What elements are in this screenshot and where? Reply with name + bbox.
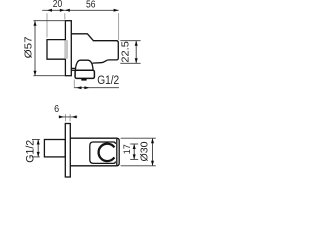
G1/2 nipple extension ticks [32,139,40,141]
neck line escutcheon to outlet [71,69,75,71]
arrow Ø57 top [34,21,37,26]
dim line 22.5 [135,41,137,64]
dim Ø57 top extension tick [33,20,64,22]
holder slot (stadium) [90,142,116,163]
arrow 22.5 bottom [135,58,138,63]
svg-text:Ø57: Ø57 [23,36,35,58]
outlet body (side view) [75,70,94,78]
dim line Ø57 [34,21,36,76]
dim line Ø30 [152,138,154,166]
arrow 20 right [60,9,65,12]
wall nipple G1/2 (side view) [47,40,65,60]
dim line 56 [65,9,119,11]
dim Ø57 bottom extension tick [33,75,64,77]
holder body profile (side view) [71,34,118,63]
arrow 17 bottom [133,154,136,159]
G1/2 nipple arrow top [37,140,40,145]
G1/2 arrow left [76,86,81,89]
arrow 20 left [47,9,52,12]
outlet thread nub [81,78,86,80]
svg-text:56: 56 [86,0,96,10]
thread shading band [65,40,68,59]
dim Ø30 extension ticks [121,137,156,139]
svg-text:G1/2: G1/2 [24,140,36,163]
svg-text:22.5: 22.5 [120,41,132,63]
dim line 20 [42,9,65,11]
dim 20/56 shared extension line [64,13,66,19]
svg-text:20: 20 [53,0,63,10]
G1/2 nipple arrow bottom [37,152,40,157]
dim 20 extension line left [46,13,48,37]
dim 22.5 top extension tick [120,40,140,42]
arrow Ø57 bottom [34,71,37,76]
svg-text:6: 6 [54,104,59,115]
arrow Ø30 top [151,138,154,143]
wall nipple (bottom view) [44,140,65,157]
G1/2 outlet extension line [73,80,75,89]
dim 22.5 bottom extension tick [120,62,140,64]
arrow 6 left [59,115,64,118]
arrow 56 right [114,9,119,12]
cup ring (thick C, opening right) [99,144,115,161]
G1/2 outlet dim line [74,87,119,89]
escutcheon (bottom view, edge-on) [65,124,70,178]
svg-text:Ø30: Ø30 [139,141,150,161]
dim line 17 [133,144,135,159]
holder outer body (bottom view) [70,138,119,166]
dim 6 extension lines [65,114,67,121]
escutcheon flange (side view) [65,21,71,76]
dim line 6 [59,116,77,118]
dim 56 extension line right [118,13,120,40]
arrow 56 left [65,9,70,12]
dim 17 extension ticks [130,143,138,145]
arrow 6 right [72,115,77,118]
arrow 22.5 top [135,41,138,46]
G1/2 nipple dim line [37,140,39,157]
arrow Ø30 bottom [151,161,154,166]
svg-text:17: 17 [122,144,133,154]
neck upper line [71,67,75,69]
arrow 17 top [133,144,136,149]
svg-text:G1/2: G1/2 [97,75,119,87]
outlet dome (side view) [75,60,93,70]
holder front lip line [116,139,118,165]
G1/2 arrow right [84,86,89,89]
